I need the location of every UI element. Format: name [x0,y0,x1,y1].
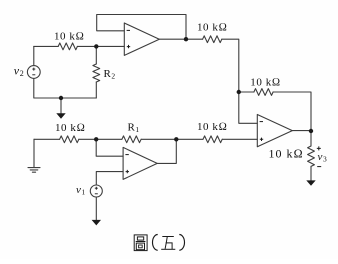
svg-text:10 kΩ: 10 kΩ [55,122,85,134]
svg-text:R1: R1 [128,122,140,135]
svg-text:10 kΩ: 10 kΩ [197,121,227,133]
svg-text:10 kΩ: 10 kΩ [54,31,84,43]
svg-text:10 kΩ: 10 kΩ [197,22,227,34]
svg-text:v1: v1 [76,184,86,197]
svg-text:R2: R2 [104,68,116,81]
svg-text:v3: v3 [318,151,328,164]
svg-text:10 kΩ: 10 kΩ [269,146,304,160]
svg-text:10 kΩ: 10 kΩ [250,77,280,89]
svg-text:v2: v2 [14,63,24,78]
